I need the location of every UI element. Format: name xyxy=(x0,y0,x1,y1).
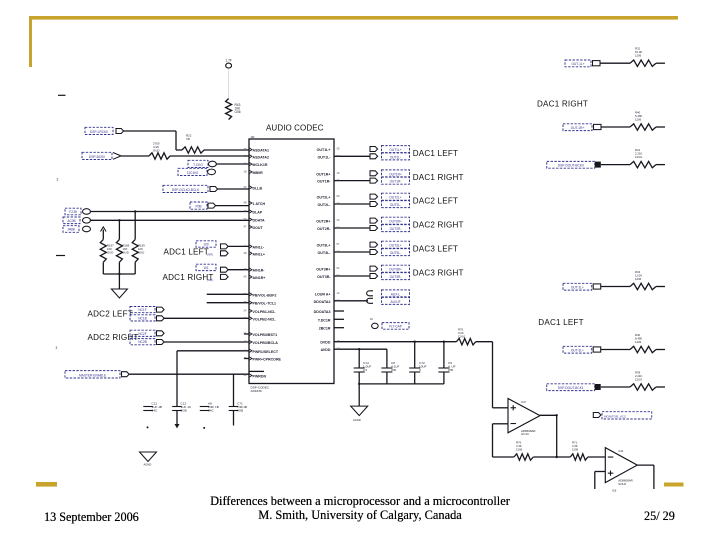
svg-text:OUT3R+: OUT3R+ xyxy=(389,268,402,272)
svg-text:OUT1L-: OUT1L- xyxy=(390,155,401,159)
svg-text:VOLPB2-NCL: VOLPB2-NCL xyxy=(253,317,277,321)
svg-text:NC1F: NC1F xyxy=(138,308,146,312)
svg-text:OUT3R+: OUT3R+ xyxy=(316,268,330,272)
svg-text:43: 43 xyxy=(337,218,340,222)
svg-text:DSP-BCK0: DSP-BCK0 xyxy=(89,155,105,159)
svg-text:24: 24 xyxy=(244,308,247,312)
svg-text:OUT2L-: OUT2L- xyxy=(390,203,401,207)
svg-text:DSP-DOUT-BCK0: DSP-DOUT-BCK0 xyxy=(558,164,584,168)
svg-text:(NR): (NR) xyxy=(207,278,213,282)
svg-text:VOLPB3/BST1: VOLPB3/BST1 xyxy=(253,333,278,337)
svg-text:OUT3R-: OUT3R- xyxy=(317,275,331,279)
svg-text:57: 57 xyxy=(337,242,340,246)
svg-text:F2JB: F2JB xyxy=(69,210,76,214)
svg-text:33: 33 xyxy=(244,185,247,189)
svg-text:VOLPB1-NCL: VOLPB1-NCL xyxy=(253,310,277,314)
svg-text:OUT2L+: OUT2L+ xyxy=(389,196,401,200)
svg-text:12UG: 12UG xyxy=(458,334,465,338)
svg-text:G06: G06 xyxy=(235,110,241,114)
svg-text:DLAP: DLAP xyxy=(253,211,263,215)
svg-text:0GB: 0GB xyxy=(181,408,187,412)
svg-text:2BC1R: 2BC1R xyxy=(319,327,331,331)
svg-text:AUX-R: AUX-R xyxy=(391,300,402,304)
svg-text:P0B: P0B xyxy=(195,205,201,209)
svg-text:AUX-L: AUX-L xyxy=(391,292,401,296)
svg-text:DDATA: DDATA xyxy=(253,219,265,223)
svg-text:1206: 1206 xyxy=(635,54,642,58)
svg-text:ADC1 RIGHT: ADC1 RIGHT xyxy=(163,273,214,282)
svg-text:OUT1R+: OUT1R+ xyxy=(316,172,330,176)
svg-text:0GB: 0GB xyxy=(237,408,243,412)
svg-text:1.7F: 1.7F xyxy=(226,59,232,63)
svg-text:OUT3L+: OUT3L+ xyxy=(389,244,401,248)
svg-text:OUT-1R+: OUT-1R+ xyxy=(571,126,585,130)
svg-text:DDOATA3: DDOATA3 xyxy=(314,310,331,314)
svg-text:40: 40 xyxy=(244,373,247,377)
svg-text:52: 52 xyxy=(337,266,340,270)
svg-text:OUT2L-: OUT2L- xyxy=(318,203,332,207)
svg-text:1206: 1206 xyxy=(572,447,579,451)
svg-text:T.DC1R: T.DC1R xyxy=(318,318,331,322)
svg-text:DAC1 LEFT: DAC1 LEFT xyxy=(413,149,458,158)
svg-text:OUT-2L+: OUT-2L+ xyxy=(571,286,584,290)
svg-text:OUT2R+: OUT2R+ xyxy=(316,220,330,224)
svg-text:1206: 1206 xyxy=(635,117,642,121)
svg-text:(NR): (NR) xyxy=(207,253,213,257)
svg-text:MASTER-ENABLE: MASTER-ENABLE xyxy=(79,373,106,377)
svg-text:3: 3 xyxy=(56,346,58,350)
svg-text:PWR+CPRCORE: PWR+CPRCORE xyxy=(253,358,282,362)
svg-text:101: 101 xyxy=(203,266,209,270)
svg-text:OUT1L+: OUT1L+ xyxy=(317,148,331,152)
svg-text:NC2F: NC2F xyxy=(138,332,146,336)
svg-text:AIN1R+: AIN1R+ xyxy=(253,276,266,280)
svg-text:100: 100 xyxy=(203,243,209,247)
svg-text:OUT2R+: OUT2R+ xyxy=(389,220,402,224)
svg-text:OUT3R-: OUT3R- xyxy=(390,275,402,279)
svg-text:DAC1 RIGHT: DAC1 RIGHT xyxy=(413,173,464,182)
svg-text:IC6: IC6 xyxy=(612,489,617,493)
svg-text:SOLD: SOLD xyxy=(618,482,626,486)
svg-text:OUT2R-: OUT2R- xyxy=(390,227,402,231)
svg-text:DOUT: DOUT xyxy=(253,226,264,230)
svg-text:VOLPB3/BCLA: VOLPB3/BCLA xyxy=(253,341,279,345)
svg-text:U42: U42 xyxy=(618,449,623,453)
svg-text:VR: VR xyxy=(186,137,190,141)
svg-text:3: 3 xyxy=(419,368,421,372)
svg-text:PB/VOL-TCL1: PB/VOL-TCL1 xyxy=(253,302,277,306)
svg-text:AC0B: AC0B xyxy=(67,219,75,223)
svg-text:NC1B: NC1B xyxy=(138,316,147,320)
svg-text:AGND: AGND xyxy=(353,418,361,422)
svg-text:DSP-LRCK0: DSP-LRCK0 xyxy=(90,130,108,134)
svg-text:MCLK1R: MCLK1R xyxy=(253,163,268,167)
svg-text:NC2B: NC2B xyxy=(138,340,147,344)
svg-text:FLT-CAP: FLT-CAP xyxy=(389,325,402,329)
svg-text:DAC2 LEFT: DAC2 LEFT xyxy=(413,197,458,206)
svg-text:U47: U47 xyxy=(521,400,526,404)
svg-text:1C: 1C xyxy=(337,347,340,351)
svg-text:ADC2 LEFT: ADC2 LEFT xyxy=(88,309,133,318)
svg-text:PB/VOL-BUF2: PB/VOL-BUF2 xyxy=(253,293,277,297)
svg-text:DAC1 LEFT: DAC1 LEFT xyxy=(538,318,583,327)
svg-text:C3: C3 xyxy=(363,368,367,372)
svg-text:OUT-3L+: OUT-3L+ xyxy=(571,349,584,353)
svg-text:WR: WR xyxy=(448,368,454,372)
svg-text:MONITOR_VCC: MONITOR_VCC xyxy=(604,414,627,418)
svg-text:DDOATA2: DDOATA2 xyxy=(314,300,331,304)
svg-text:1 ATCH: 1 ATCH xyxy=(253,202,266,206)
svg-text:DAC3 LEFT: DAC3 LEFT xyxy=(413,245,458,254)
svg-text:AIN1L+: AIN1L+ xyxy=(253,252,265,256)
svg-text:T-CKO: T-CKO xyxy=(193,163,203,167)
svg-text:GUD: GUD xyxy=(138,250,144,254)
svg-text:PWRDN: PWRDN xyxy=(253,374,267,378)
svg-text:48: 48 xyxy=(244,251,247,255)
svg-text:MB0R: MB0R xyxy=(253,171,264,175)
svg-text:OUT-1L+: OUT-1L+ xyxy=(571,62,584,66)
svg-text:GUD: GUD xyxy=(123,250,129,254)
svg-text:ADC2 RIGHT: ADC2 RIGHT xyxy=(88,333,139,342)
svg-text:LOUR A+: LOUR A+ xyxy=(315,292,331,296)
svg-text:18: 18 xyxy=(244,169,247,173)
svg-text:PWR1/SELECT: PWR1/SELECT xyxy=(253,350,279,354)
svg-text:OUT2L+: OUT2L+ xyxy=(317,196,331,200)
svg-text:12UG: 12UG xyxy=(635,377,642,381)
svg-text:3: 3 xyxy=(57,178,59,182)
svg-text:J4BB: J4BB xyxy=(67,228,75,232)
svg-text:OUT1R+: OUT1R+ xyxy=(389,172,402,176)
svg-text:1206: 1206 xyxy=(516,447,523,451)
svg-text:1206: 1206 xyxy=(635,340,642,344)
svg-text:DVDD: DVDD xyxy=(320,341,331,345)
svg-text:04C: 04C xyxy=(152,408,158,412)
svg-text:DAC1 RIGHT: DAC1 RIGHT xyxy=(537,99,588,108)
svg-text:AD1836: AD1836 xyxy=(251,389,262,393)
svg-text:OUT1R-: OUT1R- xyxy=(390,180,402,184)
svg-text:GUD: GUD xyxy=(107,250,113,254)
svg-text:GUD: GUD xyxy=(153,148,159,152)
svg-text:GC1C: GC1C xyxy=(521,432,529,436)
svg-text:1F: 1F xyxy=(370,317,373,321)
svg-text:DAC3 RIGHT: DAC3 RIGHT xyxy=(413,269,464,278)
svg-text:DSP-DOUT-BCK1: DSP-DOUT-BCK1 xyxy=(558,386,584,390)
svg-text:ASDATA2: ASDATA2 xyxy=(253,155,269,159)
svg-text:DSP-DCLK2-BCLK: DSP-DCLK2-BCLK xyxy=(172,188,200,192)
svg-text:AVDD: AVDD xyxy=(321,348,331,352)
svg-text:50: 50 xyxy=(337,194,340,198)
svg-text:AUDIO CODEC: AUDIO CODEC xyxy=(266,124,324,133)
svg-text:35: 35 xyxy=(337,147,340,151)
svg-text:12C1K0: 12C1K0 xyxy=(187,171,199,175)
svg-text:OUT3L-: OUT3L- xyxy=(390,251,401,255)
svg-text:OUT2R-: OUT2R- xyxy=(317,227,331,231)
svg-text:14: 14 xyxy=(337,291,340,295)
svg-text:ASDATA1: ASDATA1 xyxy=(253,149,269,153)
svg-text:OUT1R-: OUT1R- xyxy=(317,180,331,184)
svg-text:DLLB: DLLB xyxy=(253,186,263,190)
svg-text:WR: WR xyxy=(391,368,397,372)
svg-text:04C: 04C xyxy=(208,408,214,412)
svg-text:AIN1R-: AIN1R- xyxy=(253,269,266,273)
svg-text:1206: 1206 xyxy=(635,277,642,281)
svg-text:OUT1L-: OUT1L- xyxy=(318,155,332,159)
svg-text:OUT3L-: OUT3L- xyxy=(318,251,332,255)
svg-text:1M: 1M xyxy=(251,135,256,139)
svg-text:ADC1 LEFT: ADC1 LEFT xyxy=(164,247,209,256)
svg-text:AIN1L-: AIN1L- xyxy=(253,245,265,249)
svg-text:AGND: AGND xyxy=(144,463,152,467)
svg-text:OUT3L+: OUT3L+ xyxy=(317,244,331,248)
svg-text:47: 47 xyxy=(244,225,247,229)
svg-text:48: 48 xyxy=(244,201,247,205)
svg-text:DAC2 RIGHT: DAC2 RIGHT xyxy=(413,221,464,230)
svg-text:12UG: 12UG xyxy=(635,155,642,159)
svg-text:40: 40 xyxy=(244,274,247,278)
svg-text:19: 19 xyxy=(337,171,340,175)
svg-text:OUT1L+: OUT1L+ xyxy=(389,148,401,152)
